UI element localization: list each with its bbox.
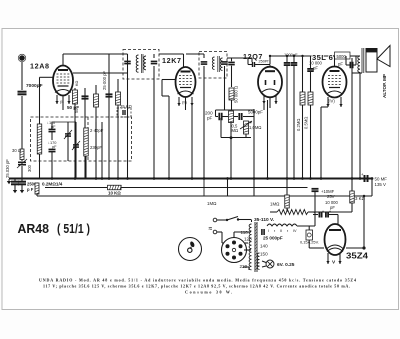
resistor 0.5M xyxy=(310,56,312,68)
svg-text:12K7: 12K7 xyxy=(162,56,182,65)
svg-text:+: + xyxy=(329,210,331,214)
resistor small below bus xyxy=(35,183,39,194)
svg-text:25.030 pF: 25.030 pF xyxy=(5,159,10,178)
resistor 50000 ohm xyxy=(231,58,233,61)
svg-text:≈: ≈ xyxy=(209,226,213,233)
svg-text:7000pF: 7000pF xyxy=(26,83,43,89)
capacitor 25000pF mains xyxy=(261,229,263,235)
svg-text:300: 300 xyxy=(27,164,32,172)
tube V4 35L6 xyxy=(323,67,347,98)
35L6 pin arrows xyxy=(327,97,329,107)
svg-text:Consumo 30 W.: Consumo 30 W. xyxy=(185,290,234,295)
transformer secondary heater coil xyxy=(257,253,259,269)
svg-text:25 000pF: 25 000pF xyxy=(263,236,283,241)
svg-text:0.2MΩ: 0.2MΩ xyxy=(296,119,301,131)
capacitor on x109 xyxy=(106,93,113,95)
tube V2 12K7 xyxy=(176,67,196,97)
resistor 1M vertical xyxy=(285,195,290,208)
svg-text:5000: 5000 xyxy=(337,54,347,59)
small trimmer box xyxy=(117,108,131,117)
wire detector bottom xyxy=(220,118,222,138)
wire 12K7 top cap xyxy=(183,54,185,67)
electrolytic pair xyxy=(318,212,320,218)
resistor 0.2M xyxy=(302,56,304,92)
output transformer xyxy=(345,56,347,65)
UNDA logo xyxy=(179,238,202,261)
wire 12A8 top cap xyxy=(62,54,64,66)
svg-text:30 Ω: 30 Ω xyxy=(12,148,21,153)
T1 core xyxy=(141,54,143,73)
T1 capacitor right xyxy=(151,60,158,62)
T1 primary coil xyxy=(136,55,138,72)
wire T2 to 12Q7 xyxy=(227,57,252,59)
antenna terminal xyxy=(19,55,25,61)
wire 12Q7 cathode down xyxy=(263,102,265,110)
svg-text:1,0MΩ: 1,0MΩ xyxy=(249,125,261,130)
wire cathode x75 xyxy=(74,88,76,179)
svg-text:KΩ: KΩ xyxy=(75,80,79,86)
trimmer b xyxy=(75,122,77,161)
capacitor 10000pF xyxy=(320,107,322,179)
capacitor+ground a xyxy=(14,179,16,182)
3524 heater pins xyxy=(327,253,329,264)
wire 12K7 cathode down xyxy=(168,96,170,179)
speaker frame xyxy=(366,49,377,73)
svg-text:pF: pF xyxy=(338,62,343,67)
fuse xyxy=(306,230,313,240)
capacitor 5000pF output xyxy=(349,62,351,69)
wire T2 secondary to diode xyxy=(216,109,255,111)
wire antenna down xyxy=(21,62,23,90)
IF transformer T1 dashed box xyxy=(123,50,159,80)
svg-text:I: I xyxy=(268,229,269,233)
svg-text:50 pF: 50 pF xyxy=(67,105,79,110)
socket leads xyxy=(247,249,252,251)
tap wires xyxy=(251,220,253,223)
svg-text:25V: 25V xyxy=(327,194,335,199)
capacitor 5000pF coupling xyxy=(238,113,240,120)
resistor 10K in bus xyxy=(108,185,122,190)
wire 12A8 grid left xyxy=(40,76,54,78)
svg-text:150: 150 xyxy=(260,252,268,257)
wire T1 to 12K7 grid cap xyxy=(159,53,184,55)
svg-text:MΩ: MΩ xyxy=(232,128,239,133)
svg-text:pF: pF xyxy=(52,144,57,149)
svg-text:1000pF: 1000pF xyxy=(284,52,298,57)
resistor 50K on x75 xyxy=(73,90,78,104)
wire x109 screen xyxy=(108,54,110,179)
capacitor 1000pF b xyxy=(293,56,295,62)
tube socket base xyxy=(222,238,247,263)
trimmer a xyxy=(67,122,69,161)
T2 wire top from 12K7 xyxy=(186,53,204,55)
wire 12A8 anode right xyxy=(73,72,128,74)
electrolytic 50MF xyxy=(371,178,373,180)
wire x227 down xyxy=(227,179,229,197)
svg-text:6V. 0.25: 6V. 0.25 xyxy=(277,262,295,268)
potentiometer 1 Mohm volume xyxy=(244,121,249,134)
transformer primary coil xyxy=(249,224,251,270)
ground arrow left xyxy=(7,181,11,184)
svg-text:35Z4: 35Z4 xyxy=(346,252,369,261)
resistor 1M horizontal xyxy=(208,196,210,200)
svg-text:AR48: AR48 xyxy=(18,222,50,236)
wires inside tuning box xyxy=(52,121,76,123)
tuning unit dashed box xyxy=(31,117,132,161)
fuse wires xyxy=(308,226,310,230)
wire 12Q7 anode up right B+ line xyxy=(269,56,271,64)
wire transformer down xyxy=(359,71,361,74)
T1 left lead xyxy=(127,54,129,79)
junction dots on bus xyxy=(51,177,54,180)
capacitor 10MF 25V xyxy=(314,196,316,212)
svg-text:12A8: 12A8 xyxy=(30,62,50,71)
svg-text:pF: pF xyxy=(313,65,318,70)
svg-text:140: 140 xyxy=(260,244,268,249)
svg-text:ALTOP. MP: ALTOP. MP xyxy=(382,74,387,98)
T1 capacitor left xyxy=(124,60,131,62)
T2 right lead down xyxy=(224,66,226,110)
resistor 300 ohm antenna xyxy=(20,149,24,160)
12K7 pin arrows xyxy=(178,97,180,106)
T2 core xyxy=(217,56,219,72)
resistor 25K x118 xyxy=(117,79,119,179)
pilot lamp 6V 0.25 xyxy=(266,260,274,268)
capacitor 1000pF a xyxy=(286,56,288,62)
T2 capacitor right xyxy=(221,61,228,63)
svg-text:117 V; placche 35L6 125 V, sch: 117 V; placche 35L6 125 V, schermo 35L6 … xyxy=(43,284,351,289)
svg-text:250Pf: 250Pf xyxy=(259,60,270,64)
resistor 3K xyxy=(351,179,353,192)
T1 secondary coil xyxy=(144,56,146,70)
svg-text:1MΩ: 1MΩ xyxy=(270,202,280,207)
lamp wires xyxy=(262,261,266,263)
label 5000pF boxed xyxy=(335,52,351,59)
capacitor 7000pF xyxy=(18,91,27,93)
svg-text:135 V: 135 V xyxy=(375,182,387,187)
svg-text:pF: pF xyxy=(207,116,213,121)
svg-text:UNDA RADIO - Mod. AR 48 e mo: UNDA RADIO - Mod. AR 48 e mod. 51/1 - Ad… xyxy=(39,278,357,283)
T1 right lead xyxy=(153,54,155,58)
tube V5 35Z4 rectifier xyxy=(325,224,346,255)
heater dropper zigzag xyxy=(277,210,308,215)
svg-text:(I): (I) xyxy=(60,99,64,104)
resistor 0.5M xyxy=(229,111,234,123)
svg-text:0.2MΩ1/4: 0.2MΩ1/4 xyxy=(42,182,63,187)
svg-text:(IV): (IV) xyxy=(328,99,335,104)
mains terminals xyxy=(213,218,217,222)
transformer core xyxy=(254,222,256,272)
resistor x95 xyxy=(95,85,97,179)
T2 primary coil xyxy=(212,57,214,69)
svg-text:50 000 Ω: 50 000 Ω xyxy=(234,86,239,103)
svg-text:25·000 pF: 25·000 pF xyxy=(102,70,107,90)
svg-text:II: II xyxy=(280,229,282,233)
IF transformer T2 dashed box xyxy=(199,52,227,79)
trimmer 300 xyxy=(18,161,26,163)
wire lower mains xyxy=(217,231,222,233)
bus line 3 xyxy=(37,195,326,197)
wire 3524 plate xyxy=(337,215,339,225)
svg-text:10 KΩ: 10 KΩ xyxy=(108,191,121,196)
12Q7 pin arrows xyxy=(263,96,265,104)
tuning unit divider xyxy=(87,117,89,161)
svg-text:(II): (II) xyxy=(182,100,188,105)
T2 left lead down xyxy=(203,78,205,179)
svg-text:110: 110 xyxy=(241,230,249,235)
wire 35L6 top cap xyxy=(334,56,336,67)
svg-text:50 MF: 50 MF xyxy=(375,177,388,182)
wire 12Q7 top cap xyxy=(248,64,252,66)
svg-text:125: 125 xyxy=(244,237,252,242)
bus line 2 xyxy=(45,187,107,189)
12A8 pin arrows xyxy=(56,95,58,104)
wire antenna lower xyxy=(21,96,23,149)
switch xyxy=(217,219,227,221)
svg-text:p F: p F xyxy=(27,187,34,192)
svg-text:+: + xyxy=(322,210,324,214)
ant coil right xyxy=(84,128,89,156)
svg-text:1MΩ: 1MΩ xyxy=(207,201,217,206)
capacitor+ground b xyxy=(21,179,23,182)
svg-text:+: + xyxy=(361,172,364,177)
wire 3524 cathode right xyxy=(346,247,364,249)
tube V1 12A8 xyxy=(53,66,73,96)
capacitor 50pF xyxy=(84,88,86,179)
wire 12K7 left xyxy=(162,79,176,81)
heater chain coils xyxy=(267,224,297,226)
svg-text:0.5MΩ: 0.5MΩ xyxy=(304,117,309,129)
speaker cone xyxy=(377,46,390,67)
bus chassis thick xyxy=(9,178,372,180)
tube V3 12Q7 xyxy=(258,67,282,98)
svg-text:IV: IV xyxy=(293,229,297,233)
T2 capacitor left xyxy=(201,61,208,63)
wire bus end down xyxy=(371,179,373,197)
osc coil left xyxy=(37,124,42,154)
svg-text:( 51/1 ): ( 51/1 ) xyxy=(57,222,90,236)
T2 secondary coil xyxy=(220,58,222,70)
